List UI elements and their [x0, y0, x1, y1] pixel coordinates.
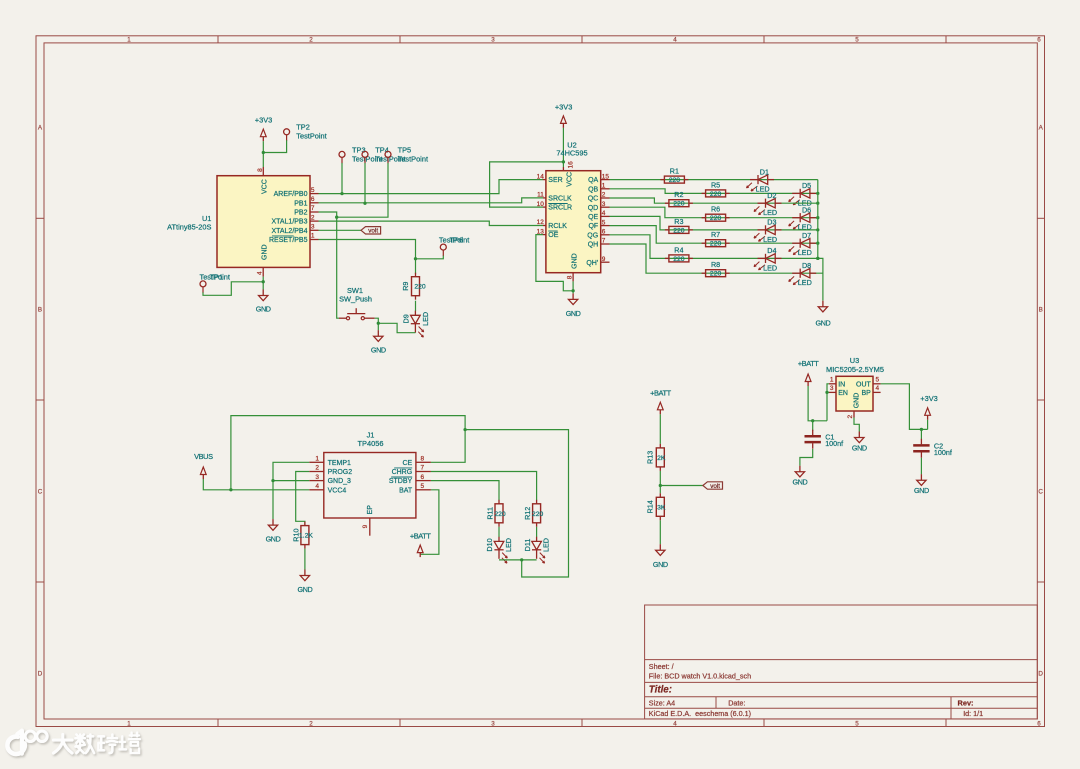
D3 reference [767, 218, 776, 227]
svg-text:D5: D5 [802, 181, 811, 190]
C1 value 100nf [825, 439, 843, 448]
wire R14 to GND [659, 520, 661, 544]
title block kicad text [649, 709, 751, 718]
testpoint TP2 [284, 129, 290, 141]
GND label below C1 [793, 478, 808, 487]
svg-text:OUT: OUT [856, 381, 872, 388]
R5 value 220 [710, 191, 722, 198]
resistor R1 [660, 176, 688, 183]
D8 reference [802, 261, 811, 270]
svg-text:R11: R11 [486, 507, 495, 520]
svg-text:6: 6 [602, 229, 606, 236]
led D1 [747, 175, 775, 191]
wire TP1 to U1 GND [203, 282, 263, 296]
ground symbol below led rail [818, 301, 827, 312]
svg-text:5: 5 [876, 376, 880, 383]
frame column ticks top [218, 36, 946, 43]
svg-text:Rev:: Rev: [958, 699, 974, 708]
junction at SW1 output [377, 322, 380, 325]
resistor R7 [702, 240, 730, 247]
TP5 value TestPoint [398, 155, 428, 164]
svg-text:B: B [38, 307, 42, 314]
svg-text:QB: QB [588, 186, 598, 193]
D10 reference [485, 538, 494, 551]
svg-text:LED: LED [798, 248, 812, 257]
svg-text:BAT: BAT [399, 487, 413, 494]
U1 pin 5 AREF/PB0 [274, 187, 319, 198]
svg-text:100nf: 100nf [934, 448, 952, 457]
GND label below C2 [914, 486, 929, 495]
TP3 value TestPoint [352, 155, 382, 164]
svg-text:D: D [1038, 671, 1043, 678]
R6 value 220 [710, 215, 722, 222]
svg-text:File: BCD watch V1.0.kicad_sch: File: BCD watch V1.0.kicad_sch [649, 672, 751, 681]
svg-text:R9: R9 [401, 282, 410, 291]
svg-text:CHRG: CHRG [392, 469, 413, 476]
resistor R4 [665, 255, 693, 262]
testpoint TP5 [385, 151, 391, 163]
svg-text:C: C [38, 489, 43, 496]
R6 reference [711, 205, 720, 214]
wire U2 GND pin down [572, 281, 574, 293]
wire SW1 to GND and D9 [375, 318, 379, 330]
svg-text:220: 220 [414, 284, 426, 291]
TP6 label [450, 236, 464, 245]
svg-text:2K: 2K [657, 455, 666, 462]
frame row labels left [38, 125, 43, 678]
R1 value 220 [669, 177, 681, 184]
junction CE loop to led return [463, 428, 466, 431]
title block sheet text [649, 662, 674, 671]
wire U1 GND pin to ground [262, 277, 264, 290]
wire C1 to GND [800, 449, 813, 466]
R8 value 220 [710, 271, 722, 278]
led D6 [789, 213, 817, 229]
junction TP4 on PB1 wire [363, 202, 366, 205]
U2 reference [567, 141, 576, 150]
U1 pin 7 PB2 [294, 205, 318, 216]
wire U2 R2 row [610, 198, 818, 203]
svg-text:QA: QA [588, 177, 598, 184]
R12 reference [523, 507, 532, 520]
svg-text:2: 2 [602, 192, 606, 199]
svg-text:C: C [1038, 489, 1043, 496]
svg-text:OE: OE [548, 232, 558, 239]
wire U2 R6 row [610, 207, 818, 218]
U2 pin 4 QE [588, 210, 609, 221]
wire +3V3 to U1 VCC [262, 141, 264, 167]
wire CE loop [231, 416, 465, 490]
led D10 [494, 537, 507, 563]
svg-text:R6: R6 [711, 205, 720, 214]
resistor R6 [702, 214, 730, 221]
R5 reference [711, 180, 720, 189]
svg-text:GND: GND [261, 244, 268, 260]
svg-text:8: 8 [257, 168, 264, 172]
svg-text:2: 2 [309, 37, 313, 44]
title block file text [649, 672, 751, 681]
testpoint TP3 [339, 151, 345, 163]
junction EN to IN [825, 391, 828, 394]
svg-text:+BATT: +BATT [650, 389, 672, 398]
frame row labels right [1038, 125, 1043, 678]
svg-text:15: 15 [602, 173, 610, 180]
svg-text:9: 9 [602, 256, 606, 263]
svg-text:VCC: VCC [567, 172, 574, 187]
title block id text [963, 709, 983, 718]
R10 reference [291, 529, 300, 542]
R2 reference [674, 190, 683, 199]
svg-text:3: 3 [311, 224, 315, 231]
svg-text:STDBY: STDBY [389, 478, 413, 485]
SW1 reference [347, 286, 363, 295]
svg-text:LED: LED [798, 278, 812, 287]
D7 value LED [798, 248, 812, 257]
wire U2 OE to GND [536, 235, 573, 291]
junction TP5 on PB2 vertical [335, 216, 338, 219]
svg-text:4: 4 [876, 385, 880, 392]
svg-text:GND: GND [571, 253, 578, 269]
U3 pin 3 EN [829, 385, 848, 397]
wire TP6 to RESET node [416, 256, 444, 259]
GND label below SW1 [371, 345, 386, 354]
svg-text:2: 2 [309, 720, 313, 727]
svg-text:volt: volt [710, 483, 720, 490]
svg-text:QD: QD [588, 205, 599, 212]
TP1 label [210, 273, 224, 282]
U2 pin 2 QC [588, 192, 610, 203]
svg-text:TEMP1: TEMP1 [328, 460, 351, 467]
svg-text:IN: IN [838, 381, 845, 388]
svg-text:D3: D3 [767, 218, 776, 227]
title block [645, 605, 1038, 719]
svg-text:R3: R3 [674, 217, 683, 226]
svg-text:D7: D7 [802, 231, 811, 240]
svg-text:3: 3 [491, 720, 495, 727]
wire CHRG to R12 [431, 472, 537, 501]
J1 pin 4 VCC4 [309, 483, 346, 494]
D5 value LED [798, 198, 812, 207]
svg-text:TP4056: TP4056 [358, 439, 384, 448]
svg-text:3K: 3K [657, 504, 666, 511]
capacitor C2 [913, 429, 929, 457]
svg-text:GND: GND [266, 535, 281, 544]
svg-text:1: 1 [127, 37, 131, 44]
svg-text:7: 7 [421, 465, 425, 472]
switch SW1 [339, 308, 375, 320]
U1 pin 3 XTAL2/PB4 [271, 224, 318, 235]
GND label below J1 left [266, 535, 281, 544]
U2 pin 13 OE [537, 228, 559, 239]
svg-text:XTAL1/PB3: XTAL1/PB3 [271, 219, 307, 226]
ic U2 body [546, 171, 601, 273]
ground symbol below U2 [568, 293, 577, 304]
frame column labels top [127, 37, 1041, 44]
svg-text:LED: LED [504, 538, 513, 552]
wire R11 to D10 [498, 527, 500, 537]
svg-text:XTAL2/PB4: XTAL2/PB4 [271, 228, 307, 235]
U2 value 74HC595 [556, 149, 587, 158]
svg-text:MIC5205-2.5YM5: MIC5205-2.5YM5 [826, 365, 884, 374]
svg-text:220: 220 [710, 241, 722, 248]
junction D3 at cathode rail [816, 228, 819, 231]
ground symbol below R14 [656, 544, 665, 555]
C2 reference [934, 441, 943, 450]
svg-text:+3V3: +3V3 [920, 394, 937, 403]
net label volt at divider [703, 482, 723, 490]
svg-text:PROG2: PROG2 [328, 469, 353, 476]
svg-text:220: 220 [673, 256, 685, 263]
svg-text:+BATT: +BATT [410, 531, 432, 540]
svg-text:LED: LED [763, 208, 777, 217]
svg-text:2: 2 [311, 214, 315, 221]
svg-text:+3V3: +3V3 [555, 102, 572, 111]
svg-text:GND: GND [816, 318, 831, 327]
resistor R14 [656, 493, 664, 520]
junction at U2 GND [571, 289, 574, 292]
resistor R8 [702, 270, 730, 277]
ic J1 body [324, 453, 416, 519]
led D8 [789, 269, 817, 285]
C1 reference [825, 432, 834, 441]
svg-text:EN: EN [838, 390, 848, 397]
svg-text:GND_3: GND_3 [328, 478, 351, 485]
R12 value 220 [532, 511, 544, 518]
wire +3V3 to U2 VCC [562, 128, 564, 167]
U3 pin 4 BP [861, 385, 880, 397]
svg-text:Id: 1/1: Id: 1/1 [963, 709, 983, 718]
wire R9 to D9 [415, 301, 417, 311]
D6 value LED [798, 223, 812, 232]
svg-text:QH': QH' [586, 260, 598, 267]
U2 pin 5 QF [588, 219, 609, 230]
J1 pin 2 PROG2 [309, 465, 352, 476]
title block date text [728, 699, 745, 708]
svg-text:D9: D9 [401, 314, 410, 323]
wire BAT to +BATT [420, 490, 439, 555]
led D5 [789, 189, 817, 205]
R14 value 3K [657, 504, 666, 511]
junction D4 at cathode rail [816, 257, 819, 260]
D5 reference [802, 181, 811, 190]
svg-text:QG: QG [587, 232, 598, 239]
wire volt node to label [660, 485, 703, 487]
+3V3 label at U1 [255, 116, 272, 125]
U2 pin 8 GND [566, 253, 578, 281]
svg-text:6: 6 [421, 474, 425, 481]
svg-text:LED: LED [763, 235, 777, 244]
svg-text:6: 6 [311, 196, 315, 203]
power VBUS symbol [200, 467, 206, 479]
resistor R12 [533, 500, 541, 527]
U2 pin 1 QB [588, 183, 609, 194]
U1 reference [202, 214, 211, 223]
wire D9 cathode to SW1 node [378, 323, 415, 332]
ground symbol below SW1 [374, 330, 383, 341]
U1 pin 2 XTAL1/PB3 [271, 214, 318, 225]
svg-text:GND: GND [566, 309, 581, 318]
D1 value LED [756, 185, 770, 194]
U1 value ATtiny85-20S [167, 223, 211, 232]
TP4 label [375, 145, 389, 154]
svg-text:4: 4 [673, 720, 677, 727]
svg-text:2: 2 [315, 465, 319, 472]
svg-text:6: 6 [1037, 37, 1041, 44]
wire TEMP1 to GND [273, 462, 309, 519]
wire OUT to +3V3 and C2 [881, 384, 928, 430]
wire +BATT down to C1 node [808, 386, 827, 421]
svg-text:3: 3 [602, 201, 606, 208]
svg-text:SER: SER [548, 177, 562, 184]
svg-text:GND: GND [852, 443, 867, 452]
wire U2 R8 row [610, 244, 823, 273]
GND label below R14 [653, 560, 668, 569]
U3 pin 5 OUT [856, 376, 881, 388]
power +BATT symbol at divider [657, 402, 663, 414]
wire TP3 stem [341, 163, 343, 194]
wire XTAL2 to volt label [319, 229, 362, 231]
U1 pin 1 RESET/PB5 [269, 233, 319, 244]
junction at volt node [659, 484, 662, 487]
U2 pin 9 QH' [586, 256, 609, 267]
svg-text:GND: GND [914, 486, 929, 495]
wire C2 to GND [920, 458, 922, 475]
svg-text:3: 3 [830, 385, 834, 392]
svg-text:+BATT: +BATT [798, 359, 820, 368]
wire TP4 stem [364, 163, 366, 203]
svg-text:RESET/PB5: RESET/PB5 [269, 237, 308, 244]
U2 pin 12 RCLK [537, 219, 568, 230]
ground symbol below U1 [259, 290, 268, 301]
svg-text:QH: QH [588, 242, 599, 249]
junction rail at D4 row [816, 257, 819, 260]
junction led return at cathode bus [520, 558, 523, 561]
svg-text:5: 5 [311, 187, 315, 194]
svg-text:QE: QE [588, 214, 598, 221]
junction at C2 tap [920, 428, 923, 431]
TP5 label [398, 145, 412, 154]
J1 pin 6 STDBY [389, 474, 431, 485]
svg-text:R7: R7 [711, 230, 720, 239]
wire R10 to GND [304, 549, 306, 570]
svg-text:4: 4 [673, 37, 677, 44]
svg-text:SRCLR: SRCLR [548, 205, 572, 212]
svg-text:R2: R2 [674, 190, 683, 199]
D11 reference [523, 539, 532, 552]
wire PB0 to U2 SER [319, 180, 544, 194]
+3V3 label at U3 output [920, 394, 937, 403]
C2 value 100nf [934, 448, 952, 457]
svg-text:GND: GND [371, 345, 386, 354]
capacitor C1 [805, 421, 821, 449]
wire STDBY to R11 [431, 481, 499, 501]
GND label below U2 [566, 309, 581, 318]
ground symbol below U3 [855, 432, 864, 443]
svg-text:+3V3: +3V3 [255, 116, 272, 125]
svg-text:TP3: TP3 [352, 145, 366, 154]
J1 pin 1 TEMP1 [309, 456, 351, 467]
wire U2 R3 row [610, 216, 818, 230]
svg-text:14: 14 [537, 173, 545, 180]
junction TEMP1/GND_3 [271, 479, 274, 482]
svg-text:ATtiny85-20S: ATtiny85-20S [167, 223, 211, 232]
wire R13 to R14 [659, 471, 661, 493]
svg-text:220: 220 [673, 227, 685, 234]
svg-text:7: 7 [602, 238, 606, 245]
svg-text:R14: R14 [645, 500, 654, 513]
resistor R5 [702, 190, 730, 197]
svg-text:5: 5 [602, 219, 606, 226]
R4 reference [674, 245, 683, 254]
junction D7 at cathode rail [816, 242, 819, 245]
resistor R10 [301, 522, 309, 549]
R4 value 220 [673, 256, 685, 263]
svg-text:VCC: VCC [262, 179, 269, 194]
R7 value 220 [710, 241, 722, 248]
U2 pin 7 QH [588, 238, 610, 249]
svg-text:16: 16 [568, 161, 575, 169]
svg-text:LED: LED [542, 538, 551, 552]
svg-text:6: 6 [1037, 720, 1041, 727]
+BATT label at divider [650, 389, 672, 398]
svg-text:volt: volt [368, 228, 378, 235]
J1 pin 8 CE [402, 456, 430, 467]
svg-text:TP5: TP5 [398, 145, 412, 154]
ic U1 body [217, 176, 310, 268]
J1 pin 5 BAT [399, 483, 431, 494]
wire U3 GND to ground [854, 418, 859, 432]
resistor R9 [412, 273, 420, 300]
svg-text:KiCad E.D.A. eeschema (6.0.1): KiCad E.D.A. eeschema (6.0.1) [649, 709, 751, 718]
R9 value 220 [414, 284, 426, 291]
svg-text:1: 1 [311, 233, 315, 240]
U2 pin 15 QA [588, 173, 609, 184]
ground symbol below C2 [917, 474, 926, 485]
frame row ticks right [1037, 218, 1044, 582]
svg-text:8: 8 [421, 456, 425, 463]
U2 pin 3 QD [588, 201, 610, 212]
led D11 [532, 537, 545, 563]
wire PB2 to SW1 [319, 212, 340, 318]
wire TP2 to VCC net [263, 140, 286, 152]
svg-text:GND: GND [653, 560, 668, 569]
svg-text:4: 4 [257, 271, 264, 275]
svg-text:BP: BP [861, 390, 871, 397]
svg-text:Title:: Title: [649, 685, 672, 696]
led D4 [754, 254, 782, 270]
wire VBUS to J1 VCC4 [203, 479, 309, 490]
ground symbol below R10 [300, 570, 309, 581]
junction TP3 on PB0 wire [340, 192, 343, 195]
R10 value 1.2K [299, 533, 313, 540]
wire +3V3 stem at U3 output [927, 420, 929, 430]
led D2 [754, 199, 782, 215]
wire PROG2 to R10 [296, 472, 310, 526]
R11 reference [486, 507, 495, 520]
testpoint TP6 [440, 244, 446, 256]
R1 reference [670, 167, 679, 176]
svg-text:4: 4 [602, 210, 606, 217]
testpoint TP4 [362, 151, 368, 163]
watermark logo [7, 731, 48, 756]
svg-text:1.2K: 1.2K [299, 533, 313, 540]
VBUS label [194, 452, 213, 461]
svg-text:8: 8 [566, 275, 573, 279]
+BATT label at J1 [410, 531, 432, 540]
svg-text:U3: U3 [850, 356, 859, 365]
svg-text:R4: R4 [674, 245, 683, 254]
resistor R3 [665, 226, 693, 233]
